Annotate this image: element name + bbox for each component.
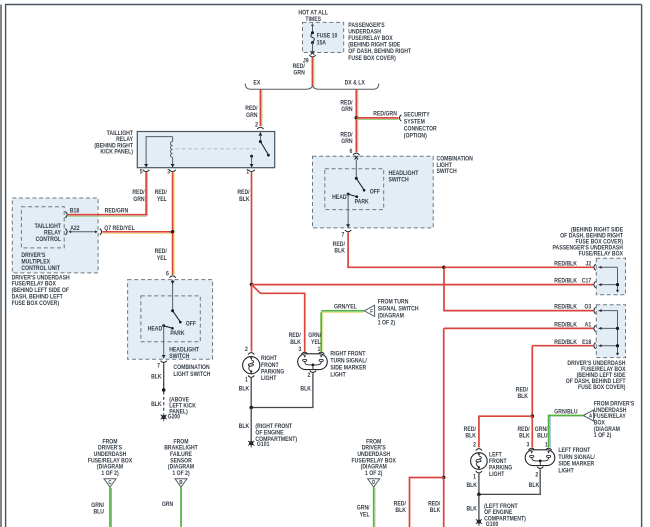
svg-text:RED/: RED/ xyxy=(516,387,529,393)
svg-text:6: 6 xyxy=(166,271,169,277)
svg-text:RED/: RED/ xyxy=(340,100,353,106)
svg-text:SIDE MARKER: SIDE MARKER xyxy=(330,365,366,371)
svg-text:SYSTEM: SYSTEM xyxy=(404,119,425,125)
svg-text:1 OF 2): 1 OF 2) xyxy=(365,471,382,477)
wire RED/BLK E18 to left lights junction xyxy=(516,346,593,417)
relay box TAILLIGHT RELAY xyxy=(137,132,274,168)
connector C FROM DRIVER'S UNDERDASH FUSE/RELAY BOX xyxy=(88,439,133,487)
svg-text:GRN: GRN xyxy=(162,502,173,508)
svg-text:SWITCH: SWITCH xyxy=(389,177,409,183)
junction RED/BLK left lights xyxy=(531,414,535,418)
svg-text:BLK: BLK xyxy=(430,508,441,514)
svg-text:2: 2 xyxy=(535,472,538,478)
svg-text:DX & LX: DX & LX xyxy=(345,80,365,86)
svg-text:G101: G101 xyxy=(257,442,270,448)
svg-text:TURN SIGNAL/: TURN SIGNAL/ xyxy=(330,358,367,364)
svg-text:GRN: GRN xyxy=(341,139,352,145)
switch box HEADLIGHT SWITCH (right) xyxy=(325,169,384,210)
svg-text:1: 1 xyxy=(473,474,476,480)
svg-text:LEFT FRONT: LEFT FRONT xyxy=(558,448,590,454)
node model split brace EX / DX & LX xyxy=(245,84,379,90)
svg-text:1 OF 2): 1 OF 2) xyxy=(101,471,118,477)
switch pin 7 (left) xyxy=(157,361,167,370)
headlight switch contacts (left) xyxy=(148,280,197,359)
svg-text:(BEHIND RIGHT SIDE: (BEHIND RIGHT SIDE xyxy=(348,42,400,48)
svg-text:YEL: YEL xyxy=(157,255,167,261)
svg-text:C17: C17 xyxy=(582,278,591,284)
svg-text:FRONT: FRONT xyxy=(261,362,279,368)
svg-text:F: F xyxy=(370,308,373,314)
wire GRN/YEL connector D down xyxy=(357,487,375,527)
svg-text:SIGNAL SWITCH: SIGNAL SWITCH xyxy=(378,306,419,312)
svg-text:GRN: GRN xyxy=(246,112,257,118)
link A22 to Q7 xyxy=(69,230,98,233)
svg-text:A: A xyxy=(589,413,593,419)
pin A1 xyxy=(594,325,596,331)
svg-text:PARK: PARK xyxy=(170,331,185,337)
wire RED/GRN split to relay pin 2 (EX branch) xyxy=(245,89,262,126)
wire RED/BLK junction down to O3 xyxy=(444,268,593,310)
svg-text:BLK: BLK xyxy=(465,433,476,439)
wire GRN/YEL from turn signal switch to pin 1 xyxy=(308,304,364,351)
wire RED/GRN relay pin 5 to B18 xyxy=(68,172,148,216)
junction BLK at G101 xyxy=(249,406,253,410)
svg-text:SIDE MARKER: SIDE MARKER xyxy=(558,461,594,467)
wire RED/BLK switch pin 7 to junction xyxy=(333,232,444,267)
svg-text:PASSENGER'S: PASSENGER'S xyxy=(348,23,385,29)
svg-text:GRN: GRN xyxy=(293,70,304,76)
wire GRN connector B down xyxy=(162,487,181,527)
svg-text:LIGHT: LIGHT xyxy=(558,468,574,474)
label RED/BLK O3 xyxy=(554,304,591,310)
label RED/BLK A1 xyxy=(554,322,591,328)
wire RED/YEL relay pin 3 to junction xyxy=(155,172,175,232)
wire RED/BLK junction to left front parking light pin 2 xyxy=(464,416,533,447)
svg-text:RED/: RED/ xyxy=(394,501,407,507)
svg-text:RED/: RED/ xyxy=(333,242,346,248)
svg-text:RED/: RED/ xyxy=(155,190,168,196)
svg-text:HOT AT ALL: HOT AT ALL xyxy=(298,10,328,16)
wire RED/BLK junction to left front turn signal pin 3 xyxy=(517,416,532,447)
function box TAILLIGHT RELAY CONTROL xyxy=(21,207,64,248)
svg-text:SWITCH: SWITCH xyxy=(169,354,189,360)
connector B FROM BRAKELIGHT FAILURE SENSOR xyxy=(164,439,198,487)
svg-text:FUSE BOX COVER): FUSE BOX COVER) xyxy=(12,301,60,307)
svg-text:BLK: BLK xyxy=(517,394,528,400)
svg-text:COMBINATION: COMBINATION xyxy=(173,365,209,371)
junction RED/BLK J2 tap xyxy=(442,266,446,270)
svg-text:RED/: RED/ xyxy=(340,132,353,138)
svg-text:PARK: PARK xyxy=(355,199,370,205)
pin J9 xyxy=(303,51,316,64)
svg-text:OFF: OFF xyxy=(370,189,381,195)
wire RED/GRN split to junction (DX & LX branch) xyxy=(340,89,357,118)
svg-text:3: 3 xyxy=(298,346,301,352)
connector box DRIVER'S UNDERDASH FUSE/RELAY BOX xyxy=(596,305,625,358)
pin O3 xyxy=(594,307,596,313)
svg-text:A1: A1 xyxy=(585,322,592,328)
svg-text:RED/GRN: RED/GRN xyxy=(373,111,397,117)
svg-text:GRN/: GRN/ xyxy=(357,505,370,511)
svg-text:FUSE/RELAY BOX: FUSE/RELAY BOX xyxy=(348,36,393,42)
wire BLK junction to ground G100 xyxy=(466,494,478,519)
svg-text:LIGHT: LIGHT xyxy=(489,472,505,478)
svg-text:BLK: BLK xyxy=(395,508,406,514)
switch pin 6 (right) xyxy=(350,149,360,160)
connector F FROM TURN SIGNAL SWITCH xyxy=(364,299,418,326)
svg-text:RED/BLK: RED/BLK xyxy=(554,261,578,267)
svg-text:GRN: GRN xyxy=(133,196,144,202)
wire GRN/BLU connector A to left front turn signal pin 1 xyxy=(535,409,583,447)
svg-text:BLK: BLK xyxy=(519,433,530,439)
svg-text:BLU: BLU xyxy=(93,509,104,515)
svg-text:GRN/: GRN/ xyxy=(535,427,548,433)
svg-text:RED/: RED/ xyxy=(517,427,530,433)
junction BLK at G100 xyxy=(477,493,481,497)
svg-text:RED/: RED/ xyxy=(464,427,477,433)
pin C17 xyxy=(594,281,596,287)
svg-text:HEAD: HEAD xyxy=(332,195,347,201)
svg-text:3: 3 xyxy=(527,442,530,448)
svg-text:RED/: RED/ xyxy=(428,501,441,507)
wire RED/BLK junction down to right front parking light pin 2 xyxy=(251,285,253,352)
svg-text:RED/GRN: RED/GRN xyxy=(105,208,129,214)
svg-text:RED/BLK: RED/BLK xyxy=(554,339,578,345)
wire BLK shared ground lead (dashed) xyxy=(151,392,164,415)
svg-text:6: 6 xyxy=(350,149,353,155)
switch pin 6 (left) xyxy=(166,271,176,277)
svg-text:B18: B18 xyxy=(70,208,79,214)
relay pin 1 xyxy=(246,169,255,175)
connector D FROM DRIVER'S UNDERDASH FUSE/RELAY BOX xyxy=(352,439,397,487)
ground G200 (above left kick panel) xyxy=(161,397,197,421)
svg-text:G200: G200 xyxy=(168,414,181,420)
pin B18 xyxy=(65,208,79,218)
svg-text:BLK: BLK xyxy=(239,424,250,430)
svg-text:1: 1 xyxy=(245,377,248,383)
svg-text:RED/: RED/ xyxy=(237,190,250,196)
svg-text:LIGHT SWITCH: LIGHT SWITCH xyxy=(173,371,210,377)
wire RED/GRN junction to security system connector xyxy=(340,111,398,152)
svg-text:RED/: RED/ xyxy=(155,249,168,255)
lamp RIGHT FRONT PARKING LIGHT xyxy=(243,346,285,383)
svg-text:FUSE 10: FUSE 10 xyxy=(317,33,338,39)
svg-text:B: B xyxy=(179,480,183,486)
svg-text:RED/BLK: RED/BLK xyxy=(554,322,578,328)
svg-text:1 OF 2): 1 OF 2) xyxy=(172,471,189,477)
svg-text:3: 3 xyxy=(167,169,170,175)
svg-text:SWITCH: SWITCH xyxy=(437,169,457,175)
svg-text:D: D xyxy=(372,480,376,486)
svg-text:BLK: BLK xyxy=(151,402,162,408)
ground G100 (left front of engine compartment) xyxy=(476,504,526,527)
svg-text:BLK: BLK xyxy=(239,386,250,392)
svg-text:BLK: BLK xyxy=(239,196,250,202)
svg-text:GRN/BLU: GRN/BLU xyxy=(554,409,577,415)
svg-text:HEAD: HEAD xyxy=(148,326,163,332)
svg-text:RED/: RED/ xyxy=(293,64,306,70)
svg-text:1: 1 xyxy=(317,346,320,352)
switch box COMBINATION LIGHT SWITCH (right) xyxy=(313,156,434,228)
svg-text:C: C xyxy=(108,480,112,486)
wire RED/BLK junction to C17 xyxy=(252,284,594,286)
svg-text:7: 7 xyxy=(157,363,160,369)
pin Q7 xyxy=(100,226,135,235)
svg-text:7: 7 xyxy=(342,232,345,238)
svg-text:UNDERDASH: UNDERDASH xyxy=(348,29,381,35)
wire GRN/BLU connector C down xyxy=(91,487,111,527)
headlight switch contacts (right) xyxy=(332,160,380,228)
wire BLK left front turn signal to junction xyxy=(480,469,540,494)
svg-text:KICK PANEL): KICK PANEL) xyxy=(100,149,133,155)
switch pin 7 (right) xyxy=(342,230,352,239)
wire RED/BLK junction to bottom left exit xyxy=(394,478,444,527)
wire BLK junction to ground G101 xyxy=(239,408,252,442)
pin E18 xyxy=(594,343,596,349)
label RED/BLK C17 xyxy=(554,278,591,284)
power label HOT AT ALL TIMES xyxy=(298,10,328,23)
switch box HEADLIGHT SWITCH (left) xyxy=(141,296,200,342)
svg-text:15A: 15A xyxy=(317,40,326,46)
relay switch contacts pins 2-1 xyxy=(250,132,270,168)
junction RED/BLK bottom feed xyxy=(442,476,446,480)
svg-text:1 OF 2): 1 OF 2) xyxy=(378,320,395,326)
svg-text:2: 2 xyxy=(473,442,476,448)
svg-text:OF DASH, BEHIND RIGHT: OF DASH, BEHIND RIGHT xyxy=(348,49,411,55)
svg-text:BLU: BLU xyxy=(537,433,548,439)
relay pin 2 xyxy=(255,122,263,129)
wire RED/BLK relay pin 1 to junction xyxy=(237,172,251,284)
wire BLK right front parking light to G101 junction xyxy=(239,378,252,408)
junction BLK at G200 xyxy=(162,388,166,392)
svg-text:5: 5 xyxy=(140,169,143,175)
passenger box internal links xyxy=(598,266,619,293)
svg-text:(OPTION): (OPTION) xyxy=(404,133,427,139)
label RED/BLK E18 xyxy=(554,339,591,345)
svg-text:EX: EX xyxy=(253,80,260,86)
svg-text:GRN/: GRN/ xyxy=(91,502,104,508)
connector A FROM DRIVER'S UNDERDASH FUSE/RELAY BOX xyxy=(583,401,634,439)
wire RED/BLK junction to bottom exit xyxy=(428,478,444,527)
svg-text:CONTROL: CONTROL xyxy=(36,237,62,243)
svg-text:2: 2 xyxy=(308,372,311,378)
svg-text:YEL: YEL xyxy=(360,512,370,518)
svg-text:RED/: RED/ xyxy=(245,106,258,112)
svg-text:TURN SIGNAL/: TURN SIGNAL/ xyxy=(558,455,595,461)
svg-text:SECURITY: SECURITY xyxy=(404,112,430,118)
junction RED/BLK taillight feed xyxy=(250,283,254,287)
svg-text:2: 2 xyxy=(255,122,258,128)
svg-text:GRN/: GRN/ xyxy=(308,333,321,339)
wire BLK left front parking light to G100 junction xyxy=(466,474,478,495)
svg-text:OFF: OFF xyxy=(186,321,197,327)
wire RED/YEL Q7 to junction xyxy=(103,232,173,234)
svg-text:FUSE BOX COVER): FUSE BOX COVER) xyxy=(348,55,396,61)
svg-text:FROM TURN: FROM TURN xyxy=(378,299,409,305)
fuse box (passenger's underdash fuse/relay box) xyxy=(303,22,344,52)
svg-text:1: 1 xyxy=(545,442,548,448)
wire RED/BLK junction to J2 xyxy=(444,266,593,268)
svg-text:RIGHT FRONT: RIGHT FRONT xyxy=(330,351,365,357)
svg-text:1: 1 xyxy=(246,169,249,175)
wire RED/BLK junction to right front turn signal pin 3 xyxy=(252,285,305,352)
svg-text:BLK: BLK xyxy=(300,386,311,392)
svg-text:BLK: BLK xyxy=(466,506,477,512)
svg-text:O3: O3 xyxy=(584,304,591,310)
svg-text:E18: E18 xyxy=(582,339,591,345)
svg-text:BLK: BLK xyxy=(290,339,301,345)
svg-text:PARKING: PARKING xyxy=(261,369,285,375)
ground G101 (right front of engine compartment) xyxy=(248,424,297,449)
wire RED/GRN fuse J9 to split xyxy=(293,58,314,87)
svg-text:FUSE/RELAY BOX: FUSE/RELAY BOX xyxy=(579,251,624,257)
label RED/BLK J2 xyxy=(554,261,591,267)
lamp LEFT FRONT PARKING LIGHT xyxy=(471,442,513,480)
fuse FUSE 10 15A xyxy=(311,23,337,52)
svg-text:RED/BLK: RED/BLK xyxy=(554,304,578,310)
relay pin 3 xyxy=(167,169,176,175)
svg-text:2: 2 xyxy=(245,346,248,352)
svg-text:J2: J2 xyxy=(586,261,592,267)
pin A22 xyxy=(65,226,79,235)
driver box internal links xyxy=(598,309,619,356)
svg-text:BLK: BLK xyxy=(529,483,540,489)
svg-text:RED/: RED/ xyxy=(132,190,145,196)
svg-text:BLK: BLK xyxy=(466,483,477,489)
svg-text:YEL: YEL xyxy=(311,339,321,345)
svg-text:(DIAGRAM: (DIAGRAM xyxy=(378,313,404,319)
wire BLK switch pin 7 to ground junction xyxy=(151,363,164,390)
svg-text:G100: G100 xyxy=(486,522,499,527)
svg-text:CONNECTOR: CONNECTOR xyxy=(404,126,437,132)
relay coil circuit pins 5-3 xyxy=(144,137,175,168)
svg-text:GRN: GRN xyxy=(341,107,352,113)
control unit box DRIVER'S MULTIPLEX CONTROL UNIT xyxy=(12,198,98,273)
svg-text:GRN/YEL: GRN/YEL xyxy=(334,304,357,310)
junction RED/YEL xyxy=(171,230,175,234)
svg-text:RIGHT: RIGHT xyxy=(261,356,277,362)
svg-text:FUSE BOX COVER): FUSE BOX COVER) xyxy=(578,385,626,391)
lamp RIGHT FRONT TURN SIGNAL/SIDE MARKER LIGHT xyxy=(298,346,367,378)
svg-text:BLK: BLK xyxy=(334,248,345,254)
relay pin 5 xyxy=(140,169,150,175)
connector SECURITY SYSTEM CONNECTOR (OPTION) xyxy=(399,112,436,139)
junction RED/GRN at security connector tap xyxy=(355,116,359,120)
svg-text:RED/BLK: RED/BLK xyxy=(554,278,578,284)
svg-text:CONTROL UNIT: CONTROL UNIT xyxy=(21,265,60,271)
connector box PASSENGER'S UNDERDASH FUSE/RELAY BOX xyxy=(596,258,625,295)
pin J2 xyxy=(594,264,596,270)
wire BLK right front turn signal to junction xyxy=(253,373,313,407)
svg-text:RED/: RED/ xyxy=(289,333,302,339)
svg-text:YEL: YEL xyxy=(157,196,167,202)
svg-text:LIGHT: LIGHT xyxy=(330,372,346,378)
switch box COMBINATION LIGHT SWITCH (left) xyxy=(128,280,213,360)
svg-text:BLK: BLK xyxy=(151,374,162,380)
svg-text:LIGHT: LIGHT xyxy=(261,376,277,382)
wire RED/BLK A1 to left front feed junction xyxy=(444,328,594,477)
wire RED/YEL junction to headlight switch pin 6 xyxy=(155,233,175,275)
relay internal dashed link xyxy=(175,148,259,150)
svg-text:1 OF 2): 1 OF 2) xyxy=(594,433,611,439)
lamp LEFT FRONT TURN SIGNAL/SIDE MARKER LIGHT xyxy=(525,442,595,478)
